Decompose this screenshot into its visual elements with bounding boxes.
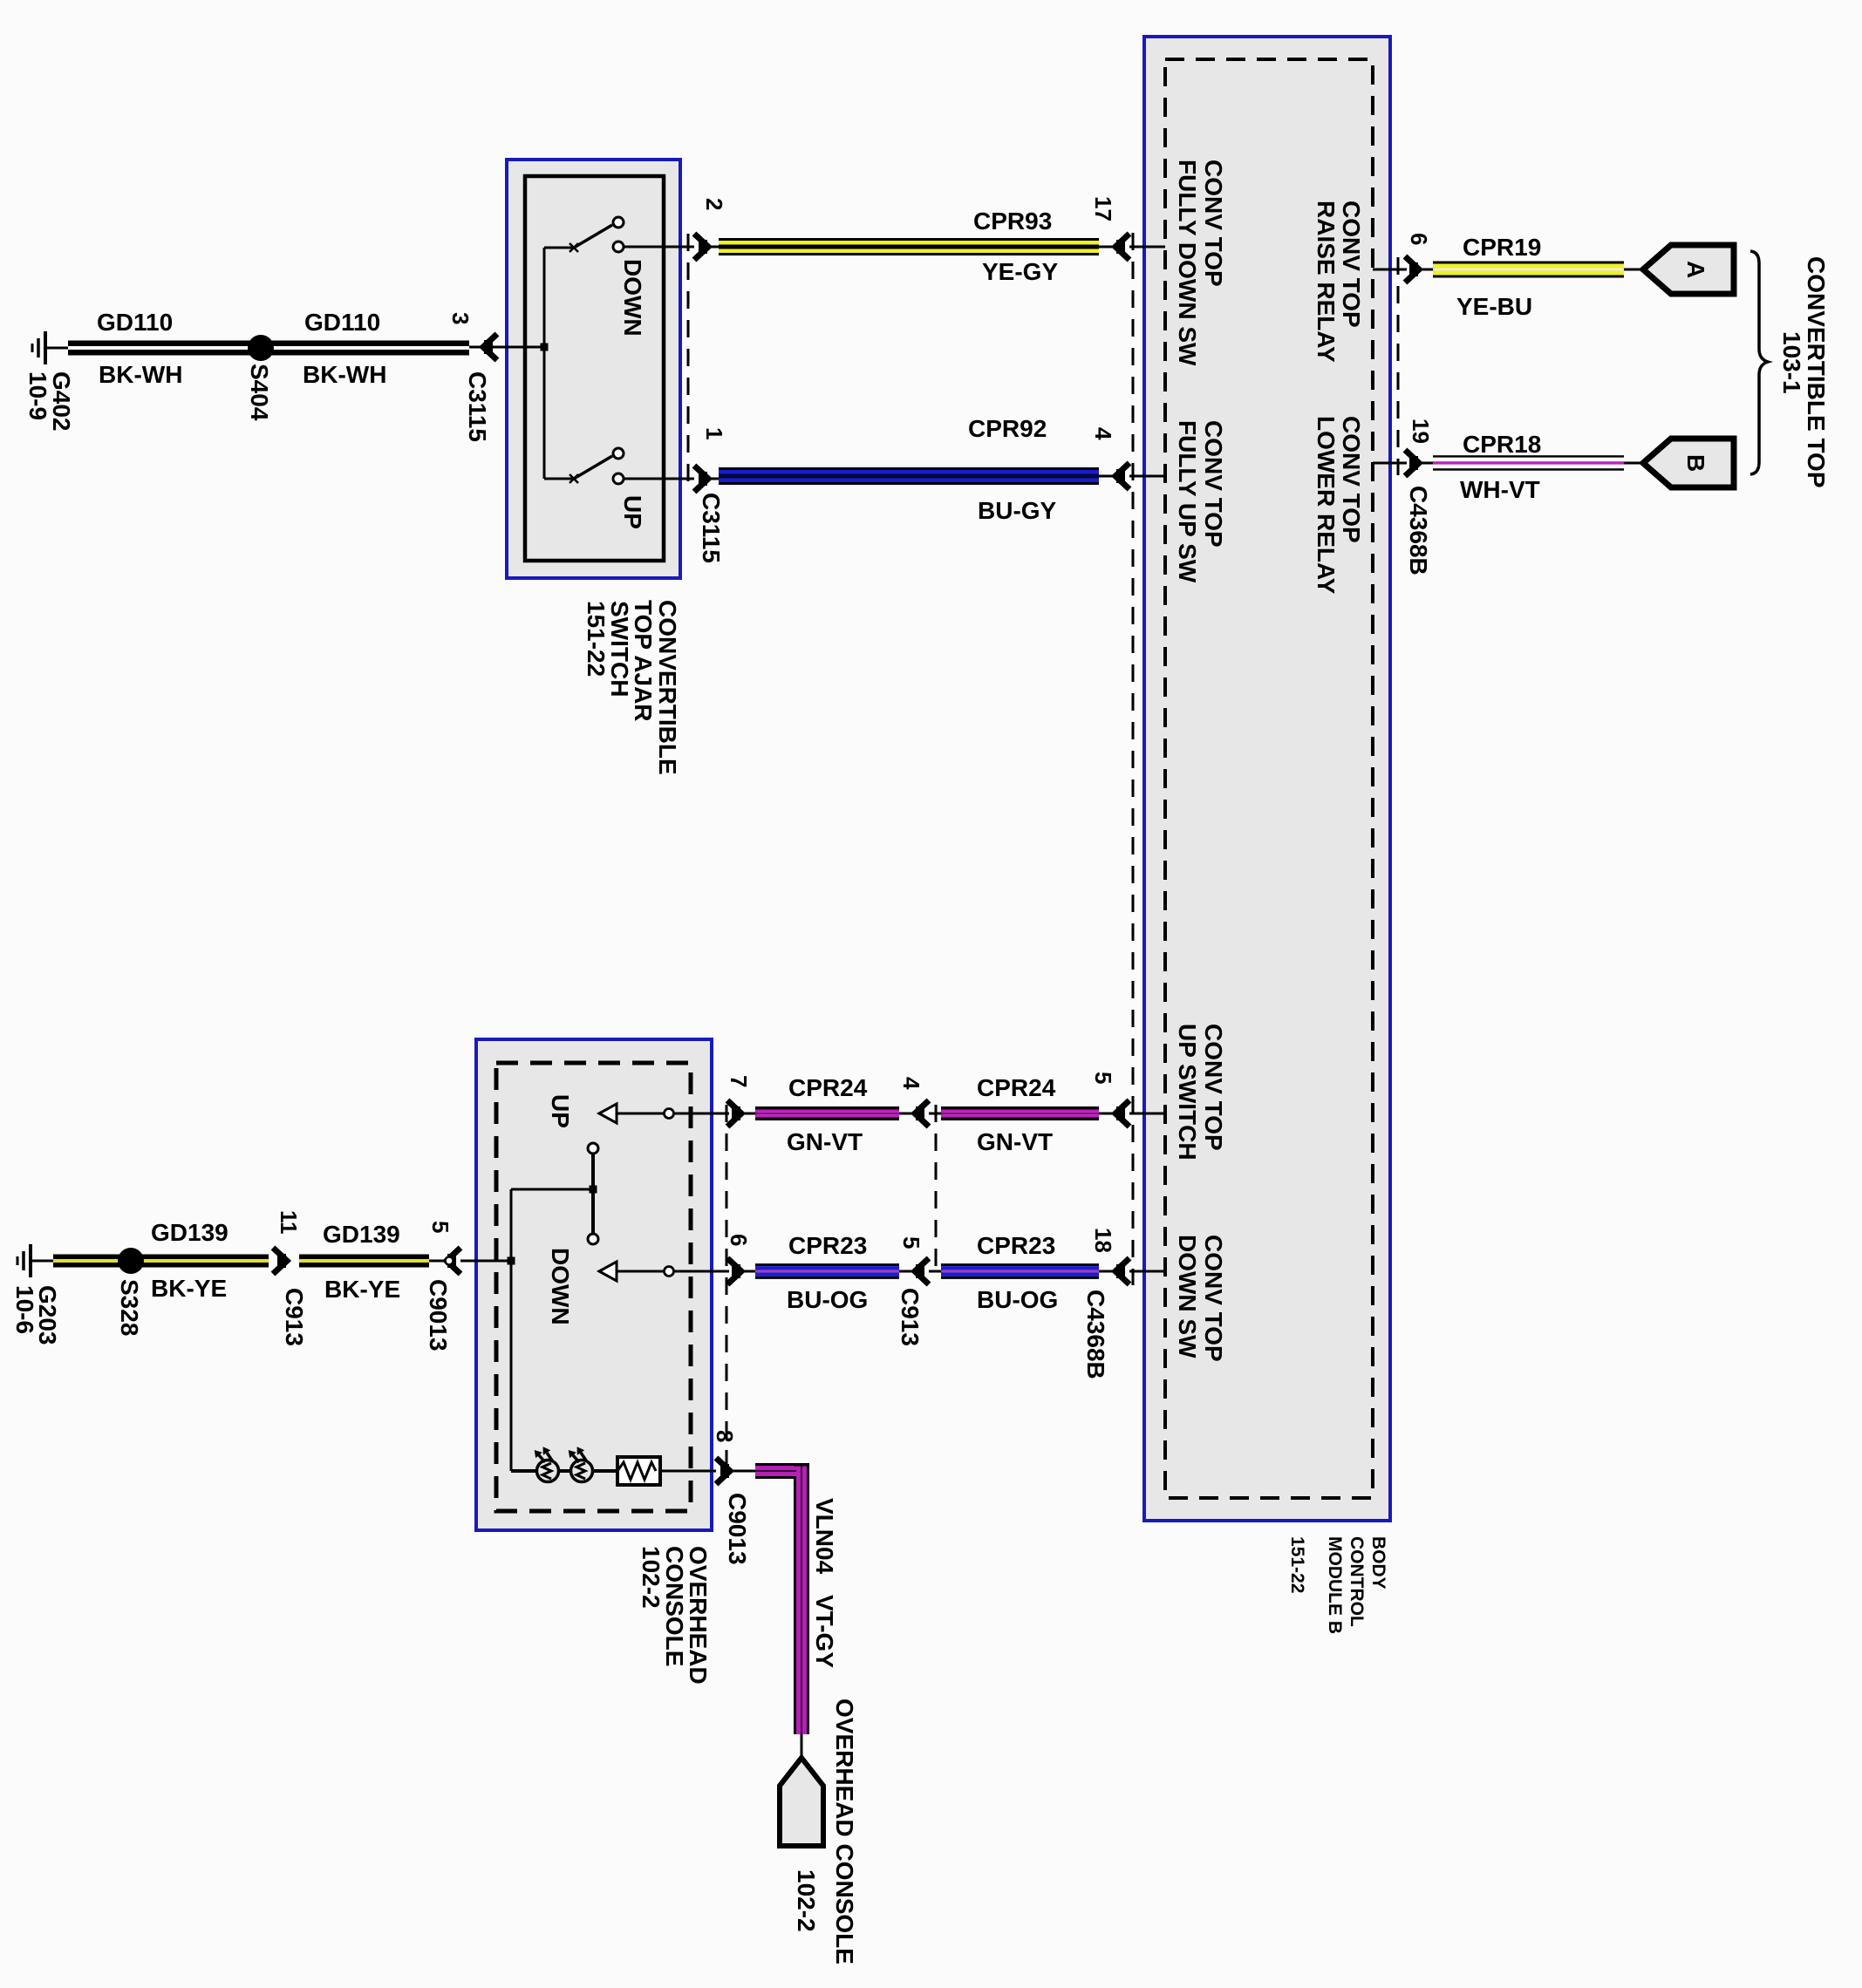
- svg-text:BU-GY: BU-GY: [978, 497, 1057, 524]
- connector C4368B dashed line (BCM left): [1082, 233, 1133, 1379]
- svg-text:10-9: 10-9: [24, 371, 51, 420]
- svg-text:S328: S328: [116, 1279, 143, 1336]
- lead pin6 to CPR23: [743, 1270, 757, 1273]
- svg-text:CONV TOP: CONV TOP: [1338, 416, 1365, 543]
- connector C913 dashed line: [897, 1105, 936, 1346]
- svg-text:151-22: 151-22: [583, 601, 610, 677]
- svg-text:11: 11: [276, 1210, 302, 1235]
- svg-text:CPR23: CPR23: [788, 1232, 867, 1259]
- svg-text:LOWER RELAY: LOWER RELAY: [1313, 416, 1340, 595]
- svg-text:A: A: [1682, 261, 1709, 278]
- BCM pin 6: [1373, 233, 1432, 283]
- ajar switch DOWN contact: [544, 217, 694, 337]
- svg-text:7: 7: [726, 1075, 752, 1087]
- connector C3115 dashed line: [687, 234, 690, 488]
- svg-text:GD139: GD139: [323, 1221, 400, 1248]
- svg-text:102-2: 102-2: [638, 1546, 665, 1609]
- BCM title BODY CONTROL MODULE B 151-22: [1287, 1536, 1388, 1634]
- svg-text:RAISE RELAY: RAISE RELAY: [1313, 201, 1340, 363]
- svg-text:6: 6: [726, 1234, 752, 1246]
- svg-text:CPR19: CPR19: [1463, 234, 1541, 261]
- wire label CPR18 WH-VT: [1460, 431, 1541, 503]
- svg-text:C9013: C9013: [425, 1279, 452, 1351]
- wire label CPR23 BU-OG (right): [977, 1232, 1058, 1313]
- console resistor: [593, 1457, 716, 1485]
- brace convertible top: [1750, 251, 1830, 488]
- wire label CPR24 GN-VT (left): [787, 1074, 868, 1155]
- wire label VLN04 VT-GY: [811, 1498, 838, 1668]
- svg-text:BODY: BODY: [1368, 1536, 1388, 1590]
- BCM pin 5: [1090, 1072, 1165, 1127]
- svg-text:18: 18: [1090, 1228, 1116, 1253]
- svg-text:BK-WH: BK-WH: [303, 361, 386, 388]
- wire CPR18 WH-VT: [1433, 455, 1624, 471]
- ajar switch common node: [497, 248, 549, 479]
- svg-text:S404: S404: [246, 364, 273, 421]
- ground G402: [24, 331, 75, 432]
- wire CPR23 BU-OG (C913 to BCM): [941, 1263, 1099, 1279]
- BCM pin 4: [1090, 427, 1165, 489]
- console switch DOWN throw: [547, 1248, 694, 1325]
- svg-text:151-22: 151-22: [1287, 1536, 1307, 1593]
- svg-text:OVERHEAD CONSOLE: OVERHEAD CONSOLE: [831, 1699, 858, 1964]
- console lamp 2: [559, 1447, 593, 1481]
- lead GD139 to C9013: [429, 1260, 447, 1263]
- svg-text:4: 4: [898, 1077, 924, 1090]
- svg-text:CONV TOP: CONV TOP: [1200, 160, 1227, 287]
- svg-text:8: 8: [712, 1430, 738, 1442]
- svg-text:C913: C913: [281, 1288, 308, 1346]
- overhead console title: [638, 1546, 712, 1685]
- svg-text:5: 5: [898, 1236, 924, 1249]
- wire label GD139 (left): [151, 1219, 228, 1302]
- C3115 pin 3: [447, 312, 497, 442]
- wire GD139 BK-YE (G203 to C913): [53, 1255, 269, 1268]
- convertible top ajar switch box: [507, 160, 680, 578]
- lead pin2 to CPR93: [710, 246, 720, 248]
- svg-text:CPR18: CPR18: [1463, 431, 1541, 458]
- wire CPR24 GN-VT (C913 to BCM): [941, 1106, 1099, 1120]
- splice S328: [116, 1248, 144, 1336]
- connector C4368B dashed line (BCM right): [1398, 257, 1432, 575]
- wire label GD139 (right): [323, 1221, 400, 1303]
- VLN04 corner: [794, 1464, 809, 1480]
- svg-text:CPR24: CPR24: [788, 1074, 868, 1101]
- svg-text:BK-WH: BK-WH: [99, 361, 182, 388]
- svg-text:CONV TOP: CONV TOP: [1200, 1024, 1227, 1151]
- connector B (convertible top): [1643, 439, 1734, 487]
- wire GD139 BK-YE (C913 to C9013): [299, 1255, 429, 1268]
- wire CPR23 BU-OG (console to C913): [755, 1263, 899, 1279]
- lead CPR18 to connector B: [1624, 462, 1645, 465]
- svg-text:CPR24: CPR24: [977, 1074, 1056, 1101]
- wire label GD110 (right): [303, 309, 386, 388]
- svg-text:C3115: C3115: [698, 493, 725, 563]
- svg-text:102-2: 102-2: [793, 1869, 820, 1932]
- overhead console connector (pentagon): [780, 1699, 858, 1964]
- svg-text:17: 17: [1090, 196, 1116, 221]
- BCM label CONV TOP LOWER RELAY: [1313, 416, 1365, 595]
- connector A (convertible top): [1643, 245, 1734, 294]
- svg-text:YE-BU: YE-BU: [1456, 293, 1532, 320]
- svg-text:GN-VT: GN-VT: [787, 1128, 863, 1155]
- svg-text:GD110: GD110: [97, 309, 173, 336]
- svg-text:VT-GY: VT-GY: [811, 1595, 838, 1668]
- splice S404: [246, 335, 274, 421]
- svg-text:5: 5: [427, 1221, 454, 1233]
- lead CPR19 to connector A: [1624, 269, 1645, 271]
- C9013 pin 8: [712, 1430, 757, 1565]
- svg-text:CPR93: CPR93: [973, 208, 1052, 235]
- BCM label CONV TOP DOWN SW: [1174, 1235, 1227, 1362]
- BCM label CONV TOP FULLY DOWN SW: [1174, 160, 1227, 366]
- BCM pin 17: [1090, 196, 1165, 260]
- BCM pin 18: [1090, 1228, 1165, 1284]
- svg-text:MODULE B: MODULE B: [1325, 1536, 1345, 1634]
- svg-text:DOWN SW: DOWN SW: [1174, 1235, 1201, 1358]
- wire VLN04 VT-GY horizontal: [755, 1463, 809, 1479]
- lead pin7 to CPR24: [743, 1113, 757, 1115]
- wire label CPR92 BU-GY: [968, 415, 1057, 524]
- svg-text:10-6: 10-6: [11, 1285, 38, 1334]
- C3115 pin 2: [694, 198, 727, 260]
- svg-text:CONV TOP: CONV TOP: [1338, 201, 1365, 328]
- C9013 pin 6: [694, 1234, 752, 1284]
- body control module B box: [1144, 37, 1390, 1521]
- svg-text:UP SWITCH: UP SWITCH: [1174, 1024, 1201, 1161]
- svg-text:6: 6: [1406, 233, 1432, 245]
- wire label CPR24 GN-VT (right): [977, 1074, 1056, 1155]
- svg-text:GD110: GD110: [304, 309, 380, 336]
- svg-text:C9013: C9013: [724, 1493, 751, 1565]
- svg-text:C3115: C3115: [464, 371, 491, 442]
- svg-text:103-1: 103-1: [1778, 331, 1805, 394]
- lead VLN04 to overhead console connector: [801, 1734, 803, 1760]
- svg-text:CONVERTIBLE TOP: CONVERTIBLE TOP: [1803, 256, 1830, 488]
- svg-text:1: 1: [701, 427, 727, 439]
- svg-text:B: B: [1682, 454, 1709, 472]
- svg-text:UP: UP: [547, 1094, 574, 1128]
- svg-text:FULLY DOWN SW: FULLY DOWN SW: [1174, 160, 1201, 366]
- wire VLN04 VT-GY vertical: [794, 1477, 809, 1734]
- svg-text:C913: C913: [897, 1288, 924, 1346]
- svg-text:CPR23: CPR23: [977, 1232, 1055, 1259]
- svg-text:FULLY UP SW: FULLY UP SW: [1174, 420, 1201, 583]
- console rocker: [508, 1143, 599, 1471]
- console lamp 1: [511, 1447, 559, 1481]
- overhead console box: [476, 1039, 712, 1530]
- svg-text:CONTROL: CONTROL: [1347, 1536, 1367, 1627]
- lead pin6 to CPR19: [1421, 269, 1435, 271]
- connector C913 pin 5: [898, 1236, 943, 1284]
- wire label GD110 (left): [97, 309, 182, 388]
- C9013 pin 7: [694, 1075, 752, 1127]
- svg-text:5: 5: [1090, 1072, 1116, 1084]
- svg-text:DOWN: DOWN: [619, 259, 646, 337]
- svg-text:YE-GY: YE-GY: [982, 258, 1058, 285]
- console switch UP throw: [547, 1094, 694, 1128]
- wire label CPR93 YE-GY: [973, 208, 1058, 285]
- svg-text:BU-OG: BU-OG: [977, 1286, 1058, 1313]
- svg-text:CONV TOP: CONV TOP: [1200, 420, 1227, 548]
- svg-text:4: 4: [1090, 427, 1116, 440]
- BCM pin 19: [1373, 419, 1434, 476]
- connector C9013 dashed line: [726, 1105, 728, 1475]
- svg-text:C4368B: C4368B: [1405, 486, 1432, 575]
- connector C913 pin 4: [898, 1077, 943, 1127]
- C3115 pin 1: [694, 427, 727, 563]
- svg-text:C4368B: C4368B: [1082, 1290, 1109, 1379]
- wire label CPR19 YE-BU: [1456, 234, 1541, 320]
- svg-text:GD139: GD139: [151, 1219, 228, 1246]
- connector C913 pin 11: [273, 1210, 308, 1346]
- wire GD110 BK-WH (G402 to C3115): [68, 341, 469, 356]
- wire CPR92 BU-GY: [719, 467, 1099, 485]
- svg-text:WH-VT: WH-VT: [1460, 476, 1540, 503]
- svg-text:19: 19: [1408, 419, 1434, 444]
- lead pin19 to CPR18: [1421, 462, 1435, 465]
- svg-text:CONV TOP: CONV TOP: [1200, 1235, 1227, 1362]
- svg-text:3: 3: [447, 312, 474, 324]
- svg-text:2: 2: [701, 198, 727, 210]
- wire CPR24 GN-VT (console to C913): [755, 1106, 899, 1120]
- BCM label CONV TOP UP SWITCH: [1174, 1024, 1227, 1161]
- BCM label CONV TOP RAISE RELAY: [1313, 201, 1365, 363]
- svg-text:CPR92: CPR92: [968, 415, 1047, 442]
- svg-text:CONVERTIBLE: CONVERTIBLE: [654, 600, 681, 775]
- svg-text:BU-OG: BU-OG: [787, 1286, 868, 1313]
- wire CPR19 YE-BU: [1433, 262, 1624, 278]
- svg-text:UP: UP: [619, 495, 646, 529]
- svg-text:BK-YE: BK-YE: [324, 1276, 400, 1303]
- svg-text:VLN04: VLN04: [811, 1498, 838, 1575]
- ajar switch UP contact: [544, 448, 694, 529]
- svg-text:GN-VT: GN-VT: [977, 1128, 1053, 1155]
- C9013 pin 5 (left): [425, 1221, 511, 1351]
- svg-text:BK-YE: BK-YE: [151, 1275, 227, 1302]
- BCM label CONV TOP FULLY UP SW: [1174, 420, 1227, 583]
- wire CPR93 YE-GY: [719, 238, 1099, 255]
- ajar switch title: [583, 600, 681, 775]
- ground G203: [11, 1244, 61, 1345]
- svg-text:DOWN: DOWN: [547, 1248, 574, 1325]
- lead pin1 to CPR92: [710, 478, 720, 480]
- wire label CPR23 BU-OG (left): [787, 1232, 868, 1313]
